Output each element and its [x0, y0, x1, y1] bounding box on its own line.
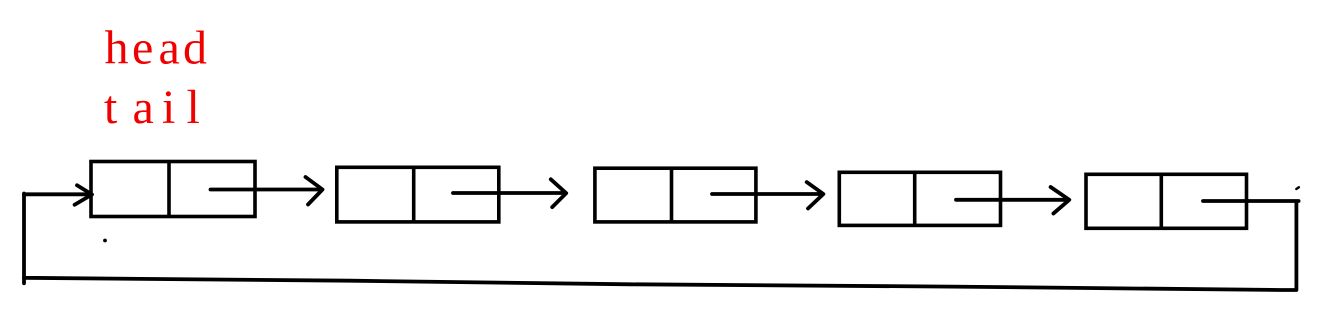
- svg-text:a: a: [159, 22, 180, 75]
- svg-text:i: i: [162, 81, 175, 134]
- arrow node2 to node3: [453, 179, 566, 207]
- arrow node1 to node2: [211, 177, 323, 205]
- label tail: [104, 81, 200, 134]
- svg-text:e: e: [132, 22, 153, 75]
- arrow node3 to node4: [712, 182, 823, 208]
- wire tail loop: node5 out, right vertical, bottom, left vertical: [24, 194, 1299, 291]
- node 4 box: [839, 172, 1000, 225]
- svg-text:h: h: [105, 22, 129, 75]
- arrow node4 to node5: [956, 187, 1069, 214]
- svg-text:t: t: [104, 81, 118, 134]
- wire entry segment into node 1: [24, 185, 92, 205]
- node 5 box: [1086, 174, 1247, 228]
- node 3 box: [595, 168, 756, 222]
- node 1 box: [91, 162, 255, 217]
- svg-text:l: l: [187, 81, 200, 134]
- label head: [105, 22, 208, 75]
- stray mark above right vertical wire: [1296, 187, 1299, 189]
- stray dot below node 1: [103, 239, 107, 243]
- wire tick below bottom-left corner: [22, 278, 26, 284]
- node 2 box: [337, 167, 499, 222]
- svg-text:d: d: [183, 22, 207, 75]
- svg-text:a: a: [133, 81, 154, 134]
